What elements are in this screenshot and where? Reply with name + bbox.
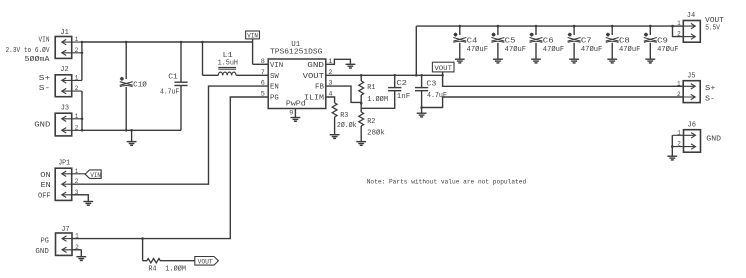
svg-text:C7: C7 bbox=[581, 38, 592, 46]
ground C6 bbox=[531, 59, 541, 63]
svg-text:PG: PG bbox=[41, 238, 49, 246]
svg-text:JP1: JP1 bbox=[58, 159, 70, 167]
label OFF bbox=[38, 193, 51, 201]
ground J6 bbox=[667, 147, 677, 160]
svg-text:VOUT: VOUT bbox=[705, 17, 724, 25]
node C10 bottom bbox=[125, 129, 128, 132]
svg-text:J6: J6 bbox=[688, 122, 696, 130]
wire FB bbox=[326, 86, 361, 102]
node C4 top bbox=[459, 25, 462, 28]
svg-text:1.ØØM: 1.ØØM bbox=[165, 264, 186, 273]
net label VIN bbox=[246, 31, 269, 64]
svg-text:47ØuF: 47ØuF bbox=[467, 45, 488, 54]
svg-text:C9: C9 bbox=[657, 38, 668, 46]
pin 2 number bbox=[328, 69, 332, 77]
ground C9 bbox=[645, 59, 655, 63]
svg-text:S+: S+ bbox=[705, 85, 716, 93]
svg-text:1: 1 bbox=[677, 80, 681, 87]
inductor L1 bbox=[203, 42, 269, 75]
ground C8 bbox=[607, 59, 617, 63]
svg-text:SW: SW bbox=[270, 73, 280, 81]
connector J7 bbox=[56, 226, 82, 256]
svg-text:9: 9 bbox=[289, 109, 293, 117]
svg-text:EN: EN bbox=[270, 84, 279, 92]
svg-text:47ØuF: 47ØuF bbox=[657, 45, 678, 54]
svg-text:VIN: VIN bbox=[90, 172, 101, 179]
ground C4 bbox=[455, 59, 465, 63]
ground input bbox=[127, 130, 137, 145]
node J1.1 junction bbox=[81, 41, 84, 44]
svg-text:VIN: VIN bbox=[39, 37, 50, 45]
svg-text:J7: J7 bbox=[61, 226, 69, 234]
label 5.5V bbox=[705, 25, 720, 33]
svg-text:C1: C1 bbox=[168, 73, 178, 81]
wire JP1 pin3 to ground bbox=[72, 195, 89, 202]
label S- output bbox=[705, 96, 715, 104]
label S+ bbox=[39, 75, 51, 83]
svg-text:GND: GND bbox=[307, 62, 324, 70]
svg-text:J5: J5 bbox=[687, 72, 695, 80]
capacitor C4 bbox=[453, 26, 488, 59]
svg-text:1: 1 bbox=[75, 74, 79, 81]
wire J1.2-J2.1 vertical bbox=[81, 42, 83, 80]
net flag VOUT at R4 bbox=[195, 257, 219, 266]
svg-text:R2: R2 bbox=[367, 118, 375, 126]
label VIN input bbox=[39, 37, 50, 45]
svg-text:1: 1 bbox=[75, 233, 79, 240]
pin 6 number bbox=[261, 80, 265, 88]
svg-text:2.3V to 6.ØV: 2.3V to 6.ØV bbox=[6, 46, 51, 55]
svg-text:VOUT: VOUT bbox=[434, 65, 452, 72]
svg-text:C8: C8 bbox=[619, 38, 630, 46]
svg-text:VIN: VIN bbox=[247, 32, 258, 39]
pin 5 number bbox=[261, 91, 265, 99]
wire S- sense bbox=[422, 97, 684, 108]
ground R2 bbox=[356, 142, 366, 146]
connector J3 bbox=[55, 104, 82, 135]
svg-text:1.5uH: 1.5uH bbox=[218, 60, 238, 68]
svg-text:1: 1 bbox=[75, 36, 79, 43]
op-amp U1 TPS61251DSG bbox=[268, 41, 326, 109]
svg-text:4.7uF: 4.7uF bbox=[427, 92, 447, 100]
wire output riser bbox=[415, 26, 417, 75]
wire GND pin1 bbox=[326, 59, 351, 64]
wire J2.2-J3 vertical bbox=[81, 91, 83, 130]
pin 3 number bbox=[328, 80, 332, 88]
node C8 top bbox=[611, 25, 614, 28]
svg-text:4.7uF: 4.7uF bbox=[160, 88, 179, 96]
wire PG bbox=[72, 97, 268, 239]
svg-text:ILIM: ILIM bbox=[304, 95, 324, 103]
svg-text:PG: PG bbox=[270, 95, 279, 103]
ground C5 bbox=[493, 59, 503, 63]
svg-text:2: 2 bbox=[677, 141, 681, 148]
capacitor C8 bbox=[606, 26, 641, 59]
wire S+ sense bbox=[443, 75, 684, 86]
svg-text:OFF: OFF bbox=[38, 193, 51, 201]
svg-text:47ØuF: 47ØuF bbox=[543, 45, 564, 54]
connector J4 bbox=[673, 12, 701, 42]
svg-text:1nF: 1nF bbox=[397, 93, 410, 101]
svg-text:2: 2 bbox=[75, 178, 79, 185]
svg-text:VIN: VIN bbox=[270, 62, 283, 70]
capacitor C9 bbox=[644, 26, 679, 59]
node C10 top bbox=[125, 41, 128, 44]
node C2 top bbox=[393, 74, 396, 77]
ground J7 bbox=[76, 257, 86, 261]
svg-text:1: 1 bbox=[677, 129, 681, 136]
connector J6 bbox=[672, 122, 700, 153]
pin 9 number bbox=[289, 109, 293, 117]
capacitor C10 bbox=[120, 42, 147, 130]
svg-text:J2: J2 bbox=[60, 66, 68, 74]
wire J6 link bbox=[671, 135, 673, 146]
svg-text:GND: GND bbox=[34, 121, 50, 129]
label input range bbox=[6, 46, 51, 55]
net flag VIN at JP1 bbox=[85, 170, 101, 179]
label S- bbox=[39, 85, 51, 93]
svg-text:1: 1 bbox=[75, 168, 79, 175]
svg-text:GND: GND bbox=[706, 135, 721, 143]
svg-text:2: 2 bbox=[677, 91, 681, 98]
svg-text:2: 2 bbox=[75, 85, 79, 92]
svg-text:TPS61251DSG: TPS61251DSG bbox=[270, 49, 322, 57]
pin 7 number bbox=[261, 69, 265, 77]
svg-text:1: 1 bbox=[75, 113, 79, 120]
label input current bbox=[25, 55, 51, 64]
svg-text:R3: R3 bbox=[340, 112, 348, 120]
wire VIN rail bbox=[82, 41, 253, 43]
svg-text:5.5V: 5.5V bbox=[705, 25, 720, 33]
connector J1 bbox=[55, 29, 82, 59]
label EN bbox=[41, 182, 51, 190]
svg-text:FB: FB bbox=[315, 84, 324, 92]
svg-text:C1Ø: C1Ø bbox=[133, 81, 147, 90]
svg-text:VOUT: VOUT bbox=[303, 73, 324, 81]
capacitor C2 bbox=[361, 75, 410, 108]
node J3.1 junction bbox=[81, 118, 84, 121]
resistor R3 bbox=[332, 103, 356, 135]
svg-text:2: 2 bbox=[75, 124, 79, 131]
svg-text:47ØuF: 47ØuF bbox=[505, 45, 526, 54]
svg-text:EN: EN bbox=[41, 182, 51, 190]
svg-text:J3: J3 bbox=[61, 104, 69, 112]
label PG bbox=[41, 238, 49, 246]
resistor R2 bbox=[359, 112, 385, 142]
svg-text:Note: Parts without value are: Note: Parts without value are not popula… bbox=[367, 179, 527, 186]
node J4 junction bbox=[671, 25, 674, 28]
node J6 junction bbox=[671, 145, 674, 148]
ground JP1 bbox=[83, 202, 93, 206]
label ON bbox=[40, 172, 50, 180]
svg-text:VOUT: VOUT bbox=[198, 258, 213, 265]
svg-text:C2: C2 bbox=[396, 80, 407, 88]
wire J4 pin2 link bbox=[673, 26, 684, 36]
node C6 top bbox=[535, 25, 538, 28]
label VOUT output bbox=[705, 17, 724, 25]
capacitor C1 bbox=[160, 42, 188, 130]
wire output rail bbox=[416, 25, 683, 27]
svg-text:8: 8 bbox=[261, 58, 265, 66]
node R1 top bbox=[360, 74, 363, 77]
capacitor C5 bbox=[491, 26, 526, 59]
pin 9 stub bbox=[294, 109, 296, 118]
svg-text:J1: J1 bbox=[60, 29, 68, 37]
node VOUT tap bbox=[441, 74, 444, 77]
svg-text:S+: S+ bbox=[39, 75, 51, 83]
svg-text:ON: ON bbox=[40, 172, 50, 180]
pin 8 number bbox=[261, 58, 265, 66]
pin 4 number bbox=[328, 91, 332, 99]
net label VOUT bbox=[432, 62, 454, 75]
svg-text:1: 1 bbox=[677, 20, 681, 27]
svg-text:2: 2 bbox=[75, 47, 79, 54]
node J3.2 junction bbox=[81, 129, 84, 132]
svg-text:47ØuF: 47ØuF bbox=[581, 45, 602, 54]
node R4 tap bbox=[141, 237, 144, 240]
svg-text:PwPd: PwPd bbox=[286, 101, 306, 109]
ground R3 bbox=[330, 135, 340, 139]
node J1.2 junction bbox=[81, 52, 84, 55]
node L1 branch bbox=[201, 41, 204, 44]
capacitor C3 bbox=[415, 75, 447, 107]
wire VOUT rail bbox=[326, 74, 443, 76]
svg-text:2Ø.Øk: 2Ø.Øk bbox=[337, 121, 357, 130]
ground U1 PwPd bbox=[291, 117, 301, 121]
wire ILIM bbox=[326, 97, 335, 103]
connector J2 bbox=[55, 66, 82, 97]
svg-text:GND: GND bbox=[35, 248, 48, 256]
node ground tap bbox=[130, 129, 133, 132]
wire J7 pin2 to ground bbox=[72, 250, 81, 257]
node FB junction bbox=[360, 102, 363, 105]
svg-text:R4: R4 bbox=[149, 265, 157, 273]
svg-text:1.ØØM: 1.ØØM bbox=[367, 95, 388, 104]
svg-text:7: 7 bbox=[261, 69, 265, 77]
wire input ground rail bbox=[82, 129, 181, 131]
svg-text:C4: C4 bbox=[467, 38, 478, 46]
note text bbox=[367, 179, 527, 186]
svg-text:C5: C5 bbox=[505, 38, 516, 46]
label GND J7 bbox=[35, 248, 48, 256]
svg-text:C6: C6 bbox=[543, 38, 554, 46]
node C3 top bbox=[420, 74, 423, 77]
resistor R1 bbox=[359, 75, 388, 112]
node C5 top bbox=[497, 25, 500, 28]
label S+ output bbox=[705, 85, 716, 93]
svg-text:28Øk: 28Øk bbox=[367, 128, 385, 137]
node riser bbox=[415, 74, 418, 77]
svg-text:S-: S- bbox=[705, 96, 715, 104]
connector JP1 bbox=[55, 159, 88, 200]
node C9 top bbox=[649, 25, 652, 28]
svg-text:S-: S- bbox=[39, 85, 51, 93]
ground C3 bbox=[417, 108, 427, 117]
ground C7 bbox=[569, 59, 579, 63]
wire EN bbox=[72, 86, 268, 184]
svg-text:R1: R1 bbox=[367, 84, 375, 92]
svg-text:47ØuF: 47ØuF bbox=[619, 45, 640, 54]
svg-text:J4: J4 bbox=[687, 12, 695, 20]
label GND output bbox=[706, 135, 721, 143]
svg-text:C3: C3 bbox=[426, 80, 436, 88]
node C1 top bbox=[180, 41, 183, 44]
capacitor C7 bbox=[568, 26, 603, 59]
svg-text:5ØØmA: 5ØØmA bbox=[25, 55, 51, 64]
pin 1 number bbox=[328, 58, 332, 66]
capacitor C6 bbox=[530, 26, 565, 59]
resistor R4 bbox=[143, 259, 195, 274]
node C7 top bbox=[573, 25, 576, 28]
ground U1 GND bbox=[346, 64, 356, 68]
node C3 bottom bbox=[420, 106, 423, 109]
wire R4 drop bbox=[142, 239, 144, 261]
connector J5 bbox=[672, 72, 700, 102]
label GND input bbox=[34, 121, 50, 129]
